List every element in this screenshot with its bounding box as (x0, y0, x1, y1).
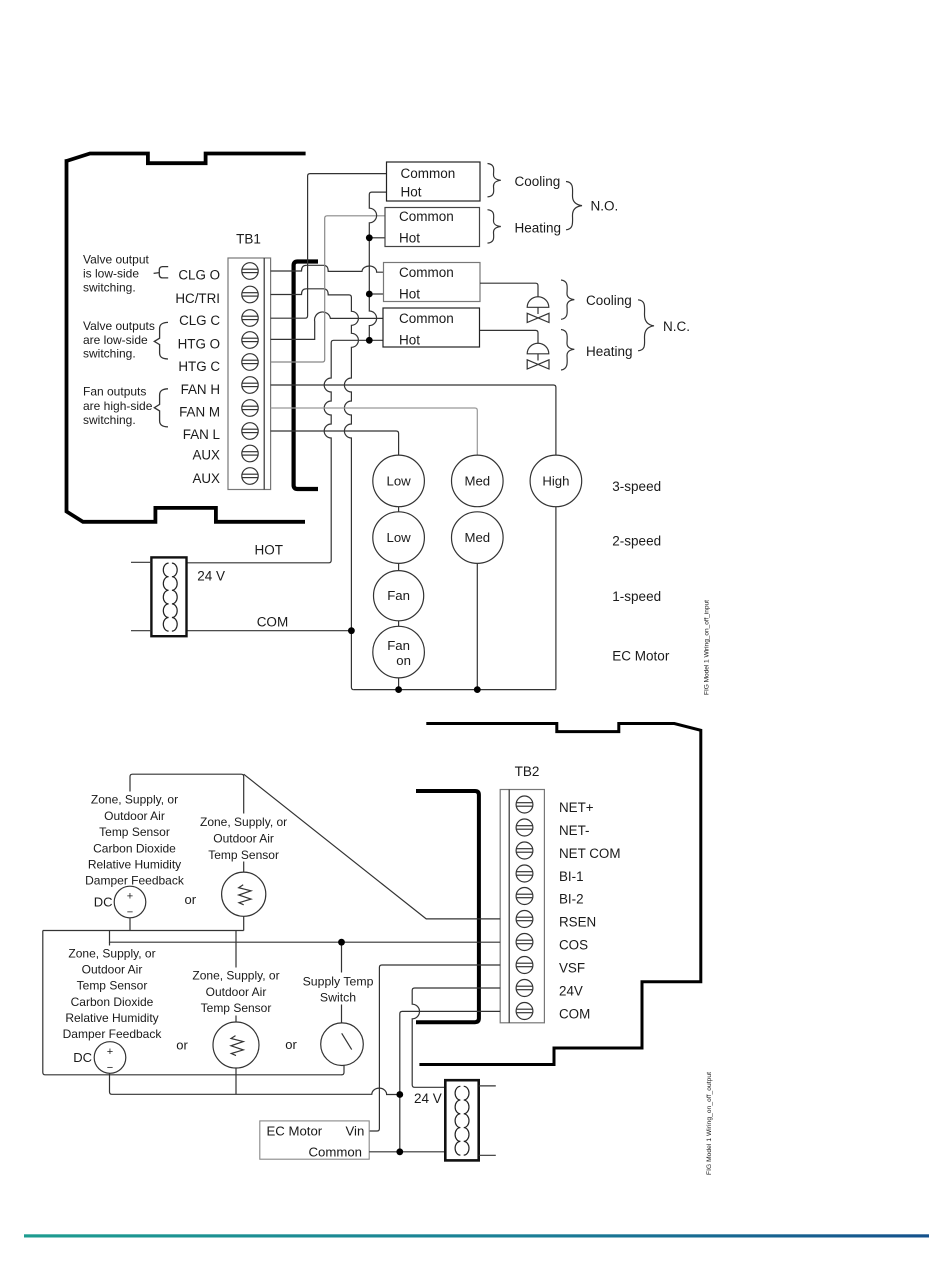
svg-text:Med: Med (464, 473, 490, 488)
svg-text:Outdoor Air: Outdoor Air (104, 809, 165, 823)
valve (N.C. cooling) (527, 297, 549, 323)
transformer T1 primary coil (163, 563, 168, 631)
transformer (24 V, bottom) (445, 1080, 478, 1160)
junction: COS rail / switch stem (338, 939, 345, 946)
wire: sensor group1 top rail with stems (130, 774, 244, 886)
svg-text:NET+: NET+ (559, 800, 594, 815)
svg-text:Relative Humidity: Relative Humidity (88, 858, 181, 872)
svg-text:NET-: NET- (559, 823, 590, 838)
wire: HC/TRI down the long vertical to COM/bus (with hops) (271, 289, 359, 690)
brace box2 (488, 210, 501, 243)
enclosure outline (controller case, bottom) (419, 724, 700, 1065)
svg-text:Low: Low (386, 530, 411, 545)
svg-text:HTG O: HTG O (178, 336, 220, 351)
svg-text:24 V: 24 V (197, 568, 225, 583)
wire: HTG O over to box4 Common (hop over vertical) (271, 312, 383, 339)
svg-text:NET COM: NET COM (559, 846, 621, 861)
brace box1 (488, 164, 501, 197)
relay box2 Common/Hot (N.O. heating) (385, 208, 480, 247)
svg-text:Carbon Dioxide: Carbon Dioxide (93, 841, 176, 855)
svg-text:+: + (107, 1046, 113, 1058)
svg-text:AUX: AUX (192, 471, 220, 486)
svg-text:on: on (396, 653, 411, 668)
brace cooling valve (561, 280, 574, 319)
svg-text:Temp Sensor: Temp Sensor (201, 1001, 272, 1015)
bottom bus wire (354, 689, 556, 691)
junction: bottom bus / med column (474, 686, 481, 693)
junction: sensor minus rail / COM vertical (396, 1091, 403, 1098)
svg-text:Valve outputs: Valve outputs (83, 319, 155, 333)
annotation: valve output is low-side switching (83, 252, 149, 294)
svg-text:Hot: Hot (399, 231, 420, 246)
TB1 screw terminals (242, 263, 258, 485)
transformer right stub wires (479, 1086, 496, 1155)
wire: switch top stem (341, 942, 343, 1033)
fan speed circle High (530, 455, 582, 507)
relay box4 Common/Hot (N.C. heating) (383, 308, 480, 347)
transformer T1 secondary coil (172, 563, 177, 631)
svg-text:Temp Sensor: Temp Sensor (99, 825, 170, 839)
svg-text:Low: Low (386, 473, 411, 488)
svg-text:DC: DC (73, 1050, 92, 1065)
svg-text:CLG C: CLG C (179, 313, 220, 328)
svg-text:Fan: Fan (387, 638, 410, 653)
wire: CLG O to box3 Common (with hops) (271, 265, 384, 272)
svg-text:−: − (107, 1062, 113, 1074)
svg-text:−: − (127, 907, 133, 919)
wire: VSF to Vin (369, 965, 500, 1131)
junction: Hot bus / box3 Hot (366, 291, 373, 298)
svg-text:or: or (185, 892, 197, 907)
column connector wires (399, 507, 556, 690)
supply temp switch label (297, 973, 381, 1005)
svg-text:Fan outputs: Fan outputs (83, 385, 146, 399)
svg-text:COS: COS (559, 938, 588, 953)
svg-text:Switch: Switch (320, 991, 356, 1005)
annotation: fan outputs are high-side switching (83, 385, 153, 428)
svg-text:HOT: HOT (255, 543, 284, 558)
wire: DC2 top stem (109, 942, 111, 1042)
junction: COM / HC-TRI vertical (348, 627, 355, 634)
wire: R2 stem vertical (235, 931, 237, 1036)
svg-text:are high-side: are high-side (83, 399, 153, 413)
resistor sensor 1 (222, 872, 266, 916)
svg-text:Common: Common (399, 209, 454, 224)
svg-text:FIG Model 1 Wiring_on_off_inpu: FIG Model 1 Wiring_on_off_input (704, 600, 711, 695)
supply temp switch symbol (321, 1023, 364, 1066)
svg-text:Heating: Heating (515, 220, 562, 235)
svg-text:HC/TRI: HC/TRI (175, 291, 220, 306)
svg-text:Hot: Hot (399, 287, 420, 302)
relay box1 Common/Hot (N.O. cooling) (387, 162, 481, 201)
brace for CLG C / HTG O / HTG C (154, 322, 168, 359)
sensor text block 4 (188, 968, 284, 1016)
wire: group2 loop (left edge + bottom rail) (43, 931, 342, 1075)
wire box3 to cooling valve (480, 283, 538, 297)
svg-text:FIG Model 1 Wiring_on_off_outp: FIG Model 1 Wiring_on_off_output (706, 1072, 713, 1175)
svg-text:switching.: switching. (83, 413, 136, 427)
svg-text:Zone, Supply, or: Zone, Supply, or (91, 793, 178, 807)
terminal block TB1 body (228, 258, 271, 490)
svg-text:Common: Common (309, 1145, 363, 1160)
svg-text:FAN H: FAN H (181, 382, 220, 397)
svg-text:CLG O: CLG O (178, 267, 220, 282)
wire: FAN H to High (271, 385, 556, 455)
svg-text:N.C.: N.C. (663, 319, 690, 334)
svg-text:24V: 24V (559, 984, 583, 999)
svg-text:are low-side: are low-side (83, 333, 148, 347)
EC Motor box (260, 1121, 369, 1159)
svg-text:or: or (285, 1037, 297, 1052)
svg-text:Damper Feedback: Damper Feedback (63, 1027, 163, 1041)
brace N.C. (638, 300, 654, 351)
svg-text:Common: Common (399, 265, 454, 280)
svg-text:Cooling: Cooling (515, 174, 561, 189)
svg-text:Supply Temp: Supply Temp (303, 975, 374, 989)
svg-text:Med: Med (464, 530, 490, 545)
wire: 24V to transformer (hop over COM) (412, 988, 500, 1087)
brace N.O. (566, 182, 582, 230)
wire: COS rail to TB2 (110, 931, 501, 943)
fan speed circles column 1 (373, 455, 425, 678)
svg-text:N.O.: N.O. (591, 199, 619, 214)
stub: bus to box2 Hot (369, 237, 385, 239)
transformer stub wires (131, 562, 151, 630)
TB2 terminal labels (559, 800, 621, 1022)
resistor sensor 2 (213, 1022, 259, 1068)
wire: Hot bus from box1 Hot down to box4 Hot (369, 192, 386, 340)
svg-text:FAN L: FAN L (183, 427, 220, 442)
valve (N.C. heating) (527, 343, 549, 369)
svg-text:3-speed: 3-speed (612, 479, 661, 494)
svg-text:Fan: Fan (387, 588, 410, 603)
fan speed circles column 2 (452, 455, 504, 563)
speed labels (612, 479, 670, 663)
svg-text:Damper Feedback: Damper Feedback (85, 874, 185, 888)
DC sensor 2 (94, 1042, 126, 1074)
svg-text:Common: Common (401, 166, 456, 181)
sensor text block 2 (196, 814, 292, 862)
DC sensor 1 (114, 886, 146, 918)
svg-text:Outdoor Air: Outdoor Air (82, 963, 143, 977)
brace for CLG O (154, 267, 169, 278)
transformer T2 primary coil (455, 1086, 460, 1155)
svg-text:AUX: AUX (192, 448, 220, 463)
wire: EC Motor Common to transformer (369, 1151, 445, 1153)
svg-text:Cooling: Cooling (586, 293, 632, 308)
svg-text:EC Motor: EC Motor (267, 1124, 323, 1139)
junction: Hot bus / box4 Hot (366, 337, 373, 344)
TB1 terminal labels (175, 267, 220, 486)
TB2 screw terminals (516, 796, 533, 1020)
svg-text:RSEN: RSEN (559, 915, 596, 930)
svg-text:Outdoor Air: Outdoor Air (206, 985, 267, 999)
wire: FAN M to Med (271, 408, 478, 455)
junction: Hot bus / box2 Hot (366, 234, 373, 241)
svg-text:Temp Sensor: Temp Sensor (77, 979, 148, 993)
svg-text:VSF: VSF (559, 961, 585, 976)
svg-text:Common: Common (399, 311, 454, 326)
wire box4 to heating valve (480, 330, 538, 343)
svg-text:FAN M: FAN M (179, 405, 220, 420)
wire: COM down to EC Motor Common (400, 1011, 500, 1151)
svg-text:Zone, Supply, or: Zone, Supply, or (200, 815, 287, 829)
wire: box4 Hot across to HOT vertical (187, 340, 384, 563)
svg-text:BI-2: BI-2 (559, 892, 584, 907)
svg-text:COM: COM (559, 1007, 590, 1022)
svg-text:Hot: Hot (401, 185, 422, 200)
enclosure outline (controller case, top) (67, 154, 306, 164)
svg-text:Zone, Supply, or: Zone, Supply, or (68, 947, 155, 961)
annotation: valve outputs are low-side switching (83, 319, 155, 361)
wire: DC2 bottom to COM rail (hop over Vin wire) (110, 1073, 400, 1094)
svg-text:switching.: switching. (83, 280, 136, 294)
svg-text:Relative Humidity: Relative Humidity (65, 1011, 158, 1025)
terminal block TB2 body (500, 790, 544, 1023)
thick wire-bundle bracket right of TB1 (294, 262, 318, 490)
svg-text:Heating: Heating (586, 344, 633, 359)
transformer T2 secondary coil (464, 1086, 469, 1155)
svg-text:HTG C: HTG C (178, 359, 220, 374)
wire: group1 bottom rail (43, 905, 244, 931)
svg-text:BI-1: BI-1 (559, 869, 584, 884)
svg-text:or: or (176, 1038, 188, 1053)
svg-text:2-speed: 2-speed (612, 534, 661, 549)
svg-text:Temp Sensor: Temp Sensor (208, 848, 279, 862)
wire: HTG C up to box2 Common (271, 216, 385, 362)
svg-text:+: + (127, 891, 133, 903)
svg-text:1-speed: 1-speed (612, 589, 661, 604)
transformer (24 V, top) (151, 557, 186, 636)
brace for FAN H / FAN M / FAN L (154, 389, 168, 427)
wire: FAN L to Low (271, 431, 399, 455)
svg-text:Outdoor Air: Outdoor Air (213, 831, 274, 845)
svg-text:High: High (542, 473, 569, 488)
brace heating valve (561, 330, 574, 371)
sensor text block 3 (52, 946, 169, 1042)
thick wire-bundle bracket left of TB2 (416, 791, 479, 1022)
junction: bottom bus / fan column (395, 686, 402, 693)
svg-text:Zone, Supply, or: Zone, Supply, or (192, 969, 279, 983)
svg-text:24 V: 24 V (414, 1091, 442, 1106)
svg-text:switching.: switching. (83, 347, 136, 361)
wire: RSEN diagonal to sensor group 1 (244, 774, 501, 919)
junction: EC Motor Common / COM vertical (396, 1148, 403, 1155)
wire: CLG C up to box1 Common (271, 174, 387, 319)
svg-text:Carbon Dioxide: Carbon Dioxide (71, 995, 154, 1009)
wire: switch bottom stem (342, 1055, 344, 1075)
svg-text:EC Motor: EC Motor (612, 649, 670, 664)
svg-text:TB2: TB2 (515, 764, 540, 779)
svg-text:is low-side: is low-side (83, 266, 139, 280)
wire: COM from transformer to HC/TRI vertical (187, 630, 352, 632)
stub: bus to box3 Hot (369, 293, 383, 295)
sensor text block 1 (77, 792, 193, 890)
svg-text:Hot: Hot (399, 333, 420, 348)
svg-text:Vin: Vin (346, 1124, 365, 1139)
svg-text:Valve output: Valve output (83, 252, 149, 266)
svg-text:DC: DC (94, 895, 113, 910)
svg-text:TB1: TB1 (236, 232, 261, 247)
svg-text:COM: COM (257, 615, 289, 630)
relay box3 Common/Hot (N.C. cooling) (384, 263, 481, 302)
